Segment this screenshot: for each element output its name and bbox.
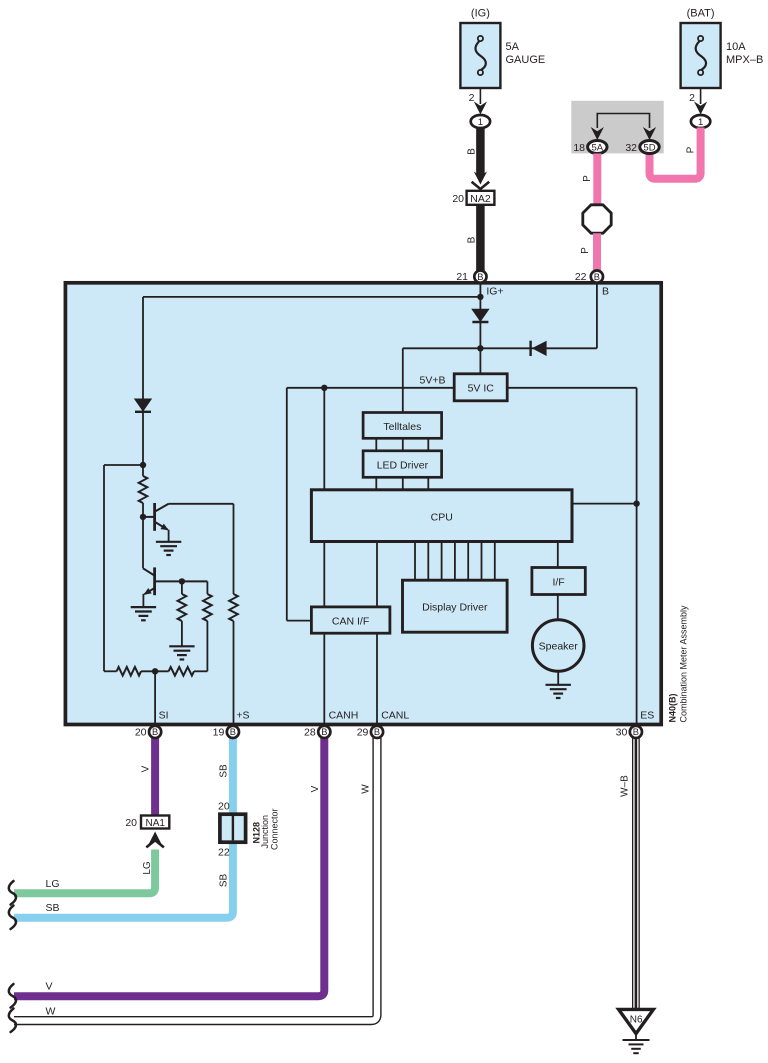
svg-text:GAUGE: GAUGE [506,54,546,66]
wire CPU to I/F [557,542,559,569]
wire right rail down to ES pin [636,504,638,726]
node C (Q2 base) [179,578,185,584]
wire fuse BAT to connector 1 [700,88,702,104]
pin name SI [159,710,169,722]
CAN I/F box [311,607,390,633]
svg-text:CANH: CANH [329,710,359,722]
wire SB (pin 19 to left edge) [14,738,233,918]
wires telltales to LED driver [376,438,428,451]
svg-text:NA2: NA2 [470,193,491,205]
fuse 10A MPX-B [681,23,721,88]
svg-text:B: B [633,727,639,737]
wire speaker to ground [557,671,559,685]
svg-text:20: 20 [125,817,137,829]
wire node down to CPU [323,388,325,492]
wire CPU right link [572,503,637,505]
telltales box [363,413,442,439]
svg-text:B: B [466,148,477,155]
label B (lower) [466,236,477,243]
svg-text:2: 2 [469,92,475,104]
LED driver box [363,451,442,478]
pin 2 label (IG fuse) [469,92,475,104]
transistor Q2 [143,567,207,607]
node IG+ [477,294,483,300]
display driver box [403,580,508,632]
ground (R2) [169,646,194,659]
svg-text:B: B [466,236,477,243]
svg-text:B: B [230,727,236,737]
gray junction-block background for connectors 5A/5D [571,101,663,154]
resistor R6 (+S branch) [229,504,238,726]
ground (Q1 emitter) [156,542,181,555]
ground (Q2 emitter) [131,607,156,620]
svg-text:N40(B): N40(B) [667,693,677,722]
break squiggle (LG) [9,881,16,905]
svg-text:B: B [321,727,327,737]
svg-text:SI: SI [159,710,169,722]
label Junction Connector [260,808,279,850]
label 20 (NA2) [452,193,464,205]
node on 5V+B rail [321,385,327,391]
label V (SI wire) [140,765,151,772]
pin name ES [640,710,654,722]
svg-text:LED Driver: LED Driver [377,459,429,471]
svg-text:30: 30 [616,727,628,739]
svg-text:B: B [602,285,609,297]
node D (SI) [152,668,158,674]
pin name CANL [381,710,409,722]
label Combination Meter Assembly [678,605,688,723]
label 19 (pin) [213,727,225,739]
wire CANL (CPU to pin 29) [376,542,378,727]
svg-text:1: 1 [698,117,703,128]
label 28 (pin) [304,727,316,739]
diode D2 (left, pointing down) [134,399,152,412]
junction connector N128 [220,814,246,842]
fuse 5A GAUGE [460,23,500,88]
svg-text:5A: 5A [591,142,603,153]
svg-text:LG: LG [46,878,60,890]
resistor R5 [203,581,212,671]
resistor R2 [178,581,187,646]
svg-text:+S: +S [236,710,249,722]
wire IG+ horizontal branch [143,296,480,298]
connector 5D [640,141,659,154]
label 30 (pin) [616,727,628,739]
resistor R4 (bottom right) [141,667,207,676]
resistor R3 (bottom left) [104,667,141,676]
wires CPU to display driver [415,542,495,582]
label 20 (N128) [218,801,230,813]
wire node to 5V IC [479,348,481,375]
combination meter assembly block N40(B) [65,283,661,725]
connector 5A [588,141,607,154]
label LG (horizontal) [46,878,60,890]
label P (above noise filter) [582,175,593,182]
CPU box [311,490,572,542]
ground (speaker) [546,685,571,698]
arrow into connector 5D [643,127,656,140]
transistor Q1 [143,503,169,542]
wire V (pin 20 to NA1) [151,738,159,816]
svg-text:CANL: CANL [381,710,409,722]
label SB (horizontal) [46,902,60,914]
label W (CANL wire) [361,784,372,794]
wire pin 21 into block [479,277,481,297]
label 22 (N128) [218,847,230,859]
connector NA1 [141,816,169,829]
label 10A MPX-B [726,41,763,66]
svg-text:P: P [686,146,697,153]
ground symbol (N6) [623,1034,650,1054]
label B (inside block) [602,285,609,297]
pin 21 (B) [474,271,486,283]
label 20 (pin) [135,727,147,739]
svg-text:MPX–B: MPX–B [726,54,763,66]
wire P (5A to noise filter) [593,154,601,206]
node A (below D2) [140,462,146,468]
pin 29 (B) [371,726,383,738]
connector pin 1 (IG) [471,115,490,128]
wire V (pin 28 to left edge) [14,738,324,996]
label 22 [575,271,587,283]
svg-text:LG: LG [142,861,153,875]
wire node to Telltales branch [403,348,481,414]
wire left branch down to diode [142,297,144,465]
svg-text:V: V [140,765,151,772]
wire B (connector 1 to NA2) [476,128,485,177]
label 5A GAUGE [506,41,546,66]
speaker [532,620,584,672]
label 18 [573,142,585,154]
wire LG (NA1 to left edge) [14,850,155,894]
arrow into connector 1 (BAT) [694,102,707,115]
svg-text:W: W [361,784,372,794]
svg-text:(BAT): (BAT) [687,8,715,20]
arrow into connector 1 (IG) [474,102,487,115]
wire W (pin 29 to left edge) [14,738,377,1021]
label 32 [625,142,637,154]
svg-text:B: B [152,727,158,737]
svg-text:29: 29 [357,727,369,739]
svg-text:28: 28 [304,727,316,739]
diode D1 (IG+, pointing down) [471,309,489,322]
node right rail [633,500,639,506]
connector NA2 [467,191,495,205]
noise filter (octagon) [583,205,611,233]
pin 22 (B) [591,271,603,283]
5V IC [454,374,507,401]
arrow into NA2 [472,172,490,190]
svg-text:21: 21 [456,271,468,283]
svg-text:Speaker: Speaker [539,641,579,653]
svg-text:CPU: CPU [431,511,453,523]
svg-text:20: 20 [135,727,147,739]
label 29 (pin) [357,727,369,739]
svg-text:5A: 5A [506,41,520,53]
pin 19 (B) [227,726,239,738]
svg-text:NA1: NA1 [145,818,165,829]
pin 2 label (BAT fuse) [689,92,695,104]
wires LED driver to CPU [376,477,428,492]
node below D1 [477,345,483,351]
wire pin 22 into block (B) [596,277,598,348]
svg-text:B: B [374,727,380,737]
wire P (noise filter to pin 22) [593,233,601,271]
wire node B down to Q2 collector [142,517,144,568]
svg-text:V: V [310,785,321,792]
svg-text:Connector: Connector [269,808,279,850]
svg-text:P: P [582,175,593,182]
wire CANH (CPU to pin 28) [323,542,325,727]
svg-text:20: 20 [452,193,464,205]
pin name CANH [329,710,359,722]
svg-text:W: W [46,1005,56,1017]
wire B (NA2 to pin 21) [476,205,485,271]
label P (below noise filter) [580,247,591,254]
wire fuse IG to connector 1 [479,88,481,104]
svg-text:B: B [477,272,483,282]
svg-text:(IG): (IG) [471,8,490,20]
wire SI to pin 20 [154,671,156,726]
svg-text:10A: 10A [726,41,746,53]
svg-text:B: B [594,272,600,282]
wire 5V IC right rail [507,388,636,504]
wire jumper 5A to 5D inside junction block [597,114,649,129]
pin 28 (B) [318,726,330,738]
node B (Q1 base) [140,514,146,520]
svg-text:I/F: I/F [552,576,564,588]
ground point N6 [619,1009,654,1033]
svg-text:22: 22 [575,271,587,283]
svg-text:Combination Meter Assembly: Combination Meter Assembly [678,605,688,723]
label 5V+B [420,375,446,387]
label 20 (NA1) [125,817,137,829]
label P (BAT wire) [686,146,697,153]
arrow into connector 5A [591,127,604,140]
svg-text:2: 2 [689,92,695,104]
label W (horizontal) [46,1005,56,1017]
arrow into NA1 (pointing up) [146,832,164,848]
svg-text:18: 18 [573,142,585,154]
wire I/F to speaker [557,595,559,621]
wire P (BAT connector 1 to 5D) [650,128,701,179]
wire node to B-line with diode D3 [480,347,597,349]
label SB (lower) [219,874,230,888]
label V (horizontal) [46,981,53,993]
wire IG+ down to node [479,297,481,348]
svg-text:V: V [46,981,53,993]
pin name +S [236,710,249,722]
wire 5V+B left rail [287,388,454,621]
svg-text:22: 22 [218,847,230,859]
svg-text:P: P [580,247,591,254]
wire loop left [104,465,143,671]
break squiggle (W) [9,1009,16,1033]
wire W-B (pin 30 to N6, white with black stripe) [632,738,640,1010]
svg-text:SB: SB [219,764,230,778]
resistor R1 [139,465,148,517]
svg-text:W–B: W–B [619,775,630,797]
break squiggle (V) [9,984,16,1008]
label B (upper) [466,148,477,155]
svg-text:IG+: IG+ [486,285,503,297]
label SB (upper) [219,764,230,778]
I/F box [532,568,585,595]
wire Q1 collector rail [169,503,234,505]
label (IG) [471,8,490,20]
svg-text:5D: 5D [643,142,655,153]
label V (CANH wire) [310,785,321,792]
label N40(B) [667,693,677,722]
label N128 [251,822,261,844]
svg-text:5V+B: 5V+B [420,375,446,387]
svg-text:ES: ES [640,710,654,722]
label LG (vertical) [142,861,153,875]
pin 20 (B) [149,726,161,738]
svg-text:CAN I/F: CAN I/F [332,615,369,627]
svg-text:32: 32 [625,142,637,154]
svg-text:Display Driver: Display Driver [422,602,488,614]
svg-text:5V IC: 5V IC [468,383,495,395]
label W-B [619,775,630,797]
svg-text:Telltales: Telltales [383,421,421,433]
svg-text:SB: SB [219,874,230,888]
label IG+ [486,285,503,297]
svg-text:SB: SB [46,902,60,914]
svg-text:1: 1 [478,117,483,128]
svg-text:N6: N6 [630,1015,643,1026]
pin 30 (B) [630,726,642,738]
svg-text:19: 19 [213,727,225,739]
label (BAT) [687,8,715,20]
svg-text:20: 20 [218,801,230,813]
diode D3 (pointing left) [531,341,547,356]
connector pin 1 (BAT) [691,115,710,128]
break squiggle (SB) [9,906,16,930]
label 21 [456,271,468,283]
